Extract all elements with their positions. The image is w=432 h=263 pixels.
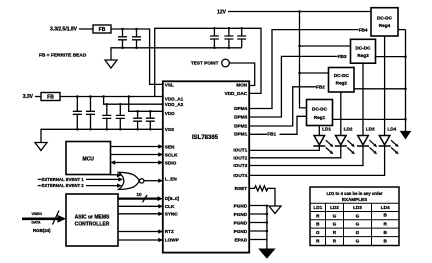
node EXTERNAL EVENT 2 xyxy=(38,185,41,186)
capacitor (VDD_DAC decoupling 2) xyxy=(224,28,233,48)
ground (RSET) xyxy=(269,206,281,214)
capacitor (VDD_DAC decoupling 1) xyxy=(210,28,219,48)
wire 12V drop to regulators xyxy=(300,12,307,108)
svg-text:SYNC: SYNC xyxy=(165,212,179,217)
wire CLK from ASIC xyxy=(118,205,159,207)
wire branch to VDD_A2 xyxy=(104,97,163,105)
wire Reg1 output to LD1 anode xyxy=(318,126,320,136)
svg-text:MON: MON xyxy=(236,82,248,87)
wire PGND stub 1 xyxy=(249,205,267,207)
diode LD1 (laser diode) xyxy=(314,136,325,145)
svg-text:RTZ: RTZ xyxy=(165,229,174,234)
wire 12V branch to Reg3 xyxy=(300,45,351,47)
svg-text:3.3/2.5/1.8V: 3.3/2.5/1.8V xyxy=(50,27,78,33)
capacitor (VDD_DAC decoupling 3) xyxy=(237,28,246,48)
wire Reg3 ground xyxy=(376,56,406,58)
svg-text:LD3: LD3 xyxy=(353,205,362,210)
svg-text:CLK: CLK xyxy=(165,204,175,209)
table LED order examples xyxy=(310,187,399,246)
wire D[9..0] bus from ASIC xyxy=(118,198,158,200)
wire PGND stub 4 xyxy=(249,230,267,232)
svg-text:EXTERNAL EVENT 1: EXTERNAL EVENT 1 xyxy=(42,177,85,182)
svg-text:VDD: VDD xyxy=(165,111,176,116)
ground (3.3V rail) xyxy=(35,143,47,151)
wire SYNC from ASIC xyxy=(118,213,159,215)
svg-text:G: G xyxy=(333,222,337,227)
svg-text:12V: 12V xyxy=(217,10,227,16)
wire ground return of top capacitors xyxy=(111,48,242,60)
MCU U-MCU xyxy=(66,142,111,175)
wire PGND bus xyxy=(266,206,268,250)
wire gate output to L_EN xyxy=(144,180,159,182)
wire Reg3 output to LD3 anode xyxy=(362,63,364,135)
wire MON to test point xyxy=(229,63,254,86)
svg-text:G: G xyxy=(316,230,320,235)
svg-text:DPM2: DPM2 xyxy=(234,124,247,129)
wire PGND stub 3 xyxy=(249,222,267,224)
capacitor (VSL decoupling 2) xyxy=(132,29,141,48)
capacitor (VDD_A2 decoupling 2) xyxy=(116,104,125,129)
wire VDD_DAC feed from 3.3V rail along top xyxy=(155,28,261,96)
svg-text:3.3V: 3.3V xyxy=(23,94,34,100)
wire VSL net to VSL pin xyxy=(111,29,163,84)
svg-text:D[9..0]: D[9..0] xyxy=(165,196,180,201)
svg-text:VSS: VSS xyxy=(165,127,174,132)
svg-text:FB2: FB2 xyxy=(316,85,325,90)
svg-text:G: G xyxy=(356,239,360,244)
svg-text:B: B xyxy=(384,212,388,217)
svg-text:VIDEO: VIDEO xyxy=(32,212,43,216)
ferrite bead FB (3.3V rail) xyxy=(41,93,60,101)
svg-text:ASIC or MEMS: ASIC or MEMS xyxy=(75,214,110,220)
wire SDIO bidirectional xyxy=(115,162,159,164)
svg-text:EXTERNAL EVENT 2: EXTERNAL EVENT 2 xyxy=(42,183,85,188)
DC-DC Reg3 xyxy=(351,39,376,63)
svg-text:LD3: LD3 xyxy=(366,126,375,131)
node FB2 label xyxy=(316,84,329,90)
svg-text:EXAMPLES: EXAMPLES xyxy=(342,197,367,202)
svg-text:SEN: SEN xyxy=(165,145,175,150)
wire LOWP from ASIC xyxy=(118,239,159,241)
wire SEN from MCU xyxy=(111,146,159,148)
svg-text:VSL: VSL xyxy=(165,82,174,87)
wire LD3 cathode to IOUT3 xyxy=(249,146,364,166)
wire LD4 cathode to IOUT4 xyxy=(249,146,385,175)
svg-text:IOUT2: IOUT2 xyxy=(233,156,247,161)
node EXTERNAL EVENT 1 xyxy=(38,179,41,180)
svg-text:G: G xyxy=(333,213,337,218)
svg-text:CONTROLLER: CONTROLLER xyxy=(75,221,110,227)
svg-text:Reg4: Reg4 xyxy=(379,23,391,28)
ground (top capacitors) xyxy=(105,60,117,68)
svg-text:LD4: LD4 xyxy=(381,205,390,210)
wire EPAD stub xyxy=(249,239,267,241)
svg-text:PGND: PGND xyxy=(234,203,248,208)
wire LD2 cathode to IOUT2 xyxy=(249,146,341,158)
svg-text:G: G xyxy=(356,230,360,235)
svg-text:LOWP: LOWP xyxy=(165,238,179,243)
svg-text:PGND: PGND xyxy=(234,212,248,217)
svg-text:DC-DC: DC-DC xyxy=(377,16,393,21)
op-amp U1 ISL78365 main IC xyxy=(163,81,249,252)
wire 12V rail xyxy=(228,11,371,13)
svg-text:Reg3: Reg3 xyxy=(357,53,369,58)
svg-text:LD4: LD4 xyxy=(387,126,396,131)
svg-text:PGND: PGND xyxy=(234,220,248,225)
svg-text:FB: FB xyxy=(99,27,106,33)
diode LD2 (laser diode) xyxy=(336,136,347,145)
node FB3 label xyxy=(338,53,351,59)
svg-text:PGND: PGND xyxy=(234,229,248,234)
gate U-NOR (3-input NOR) xyxy=(119,172,140,189)
svg-text:FB4: FB4 xyxy=(359,27,368,32)
wire Reg1 ground xyxy=(333,118,406,120)
svg-text:DC-DC: DC-DC xyxy=(334,73,350,78)
capacitor (VDD_A1 decoupling 1) xyxy=(73,97,82,130)
node FB1 label xyxy=(267,131,280,137)
wire xyxy=(35,96,41,98)
wire DPM4 to FB4 xyxy=(249,30,372,109)
wire RTZ from ASIC xyxy=(118,231,159,233)
wire LD1 cathode to IOUT1 xyxy=(249,146,320,150)
node VIDEO DATA input arrow xyxy=(22,218,58,221)
svg-text:LD2: LD2 xyxy=(330,205,339,210)
svg-text:TEST POINT: TEST POINT xyxy=(191,61,219,66)
svg-text:LD1 to 4 can be in any order: LD1 to 4 can be in any order xyxy=(326,191,382,196)
svg-text:SCLK: SCLK xyxy=(165,153,178,158)
wire 3.3V rail to VDD_A1 xyxy=(60,96,163,98)
svg-text:R: R xyxy=(384,222,388,227)
svg-text:LD2: LD2 xyxy=(344,126,353,131)
wire PGND stub 2 xyxy=(249,213,267,215)
svg-text:LD1: LD1 xyxy=(313,205,322,210)
svg-text:FB1: FB1 xyxy=(267,132,276,137)
svg-text:VDD_DAC: VDD_DAC xyxy=(225,91,248,96)
wire DPM2 to FB2 xyxy=(249,87,329,126)
svg-text:RGB(24): RGB(24) xyxy=(33,228,51,233)
diode LD4 (laser diode) xyxy=(379,136,390,145)
svg-text:G: G xyxy=(356,222,360,227)
capacitor (VDD_A1 decoupling 2) xyxy=(86,97,95,130)
svg-text:DC-DC: DC-DC xyxy=(355,45,371,50)
svg-text:Reg2: Reg2 xyxy=(336,81,348,86)
svg-text:VDD_A2: VDD_A2 xyxy=(165,102,184,107)
resistor RSET xyxy=(249,186,276,206)
wire Reg2 output to LD2 anode xyxy=(340,92,342,136)
ferrite bead FB (VSL rail) xyxy=(93,25,111,33)
node FB4 label xyxy=(359,27,372,33)
svg-text:FB = FERRITE BEAD: FB = FERRITE BEAD xyxy=(39,53,87,59)
ground (power ground, filled) xyxy=(260,249,275,258)
svg-text:FB3: FB3 xyxy=(338,54,347,59)
wire xyxy=(79,28,93,30)
svg-text:Reg1: Reg1 xyxy=(314,115,326,120)
svg-text:DATA: DATA xyxy=(32,220,41,224)
wire Reg2 ground xyxy=(354,88,406,90)
capacitor (VDD decoupling 2) xyxy=(146,111,155,129)
svg-text:G: G xyxy=(356,213,360,218)
svg-text:MCU: MCU xyxy=(83,156,95,162)
ground (regulator bus, filled) xyxy=(401,132,410,139)
capacitor (VDD decoupling 1) xyxy=(133,111,142,129)
svg-text:ISL78365: ISL78365 xyxy=(192,135,219,141)
svg-text:FB: FB xyxy=(47,95,54,101)
svg-text:RSET: RSET xyxy=(235,186,248,191)
svg-text:IOUT1: IOUT1 xyxy=(233,147,247,152)
svg-text:B: B xyxy=(384,239,388,244)
svg-text:DPM4: DPM4 xyxy=(234,106,247,111)
svg-text:VDD_A1: VDD_A1 xyxy=(165,96,184,101)
DC-DC Reg1 xyxy=(307,100,333,126)
capacitor (VSL decoupling 1) xyxy=(118,29,127,48)
svg-text:L_EN: L_EN xyxy=(165,177,178,182)
wire branch to VDD xyxy=(129,97,163,112)
wire SCLK from MCU xyxy=(111,154,159,156)
svg-text:DPM3: DPM3 xyxy=(234,115,247,120)
DC-DC Reg2 xyxy=(329,68,355,93)
diode LD3 (laser diode) xyxy=(358,136,369,145)
wire Reg4 ground xyxy=(398,29,406,31)
svg-text:DC-DC: DC-DC xyxy=(312,107,328,112)
svg-text:DPM1: DPM1 xyxy=(234,131,247,136)
svg-text:LD1: LD1 xyxy=(322,126,331,131)
capacitor (VDD_A2 decoupling 1) xyxy=(102,104,111,129)
svg-text:EPAD: EPAD xyxy=(235,237,248,242)
svg-text:SDIO: SDIO xyxy=(165,160,177,165)
wire 12V branch to Reg2 xyxy=(300,72,329,74)
ASIC or MEMS controller U-ASIC xyxy=(66,194,118,246)
wire VSS ground rail xyxy=(41,129,163,142)
wire DPM1 to FB1 xyxy=(249,116,307,134)
wire regulator ground bus xyxy=(405,30,407,132)
svg-text:B: B xyxy=(384,230,388,235)
wire DPM3 to FB3 xyxy=(249,56,351,117)
DC-DC Reg4 xyxy=(371,8,398,36)
svg-text:IOUT4: IOUT4 xyxy=(233,173,247,178)
svg-text:10: 10 xyxy=(137,192,143,197)
wire Reg4 output to LD4 anode xyxy=(384,36,386,136)
svg-text:IOUT3: IOUT3 xyxy=(233,163,247,168)
wire MCU to gate input xyxy=(111,174,118,176)
